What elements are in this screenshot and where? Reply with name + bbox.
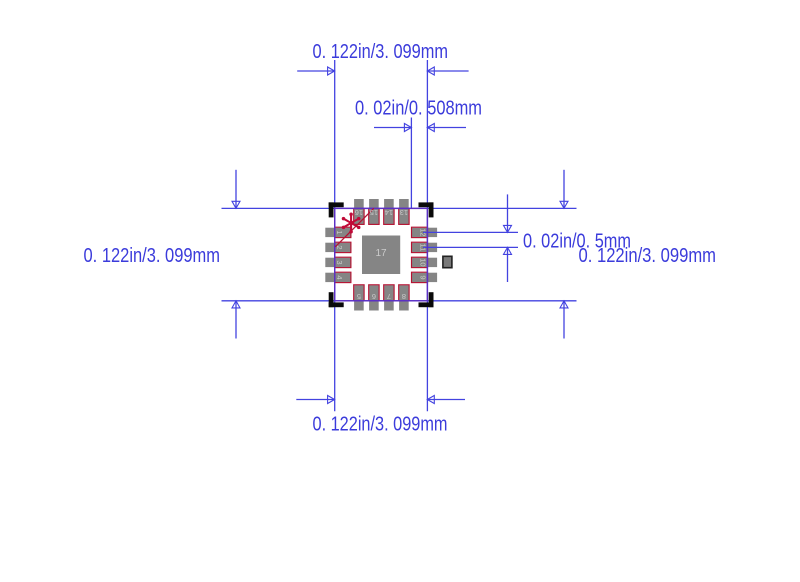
svg-text:8: 8 <box>402 292 406 301</box>
svg-text:4: 4 <box>335 275 344 279</box>
svg-text:17: 17 <box>375 248 387 259</box>
svg-text:15: 15 <box>370 208 378 217</box>
svg-text:0. 122in/3. 099mm: 0. 122in/3. 099mm <box>313 414 448 436</box>
svg-text:0. 122in/3. 099mm: 0. 122in/3. 099mm <box>579 245 717 267</box>
svg-text:2: 2 <box>335 245 344 249</box>
svg-text:14: 14 <box>385 208 393 217</box>
svg-text:11: 11 <box>419 244 428 252</box>
svg-text:0. 02in/0. 508mm: 0. 02in/0. 508mm <box>355 97 482 119</box>
svg-text:3: 3 <box>335 260 344 264</box>
svg-text:0. 122in/3. 099mm: 0. 122in/3. 099mm <box>84 245 221 267</box>
svg-text:6: 6 <box>372 292 376 301</box>
svg-text:7: 7 <box>387 292 391 301</box>
svg-text:16: 16 <box>355 208 363 217</box>
svg-text:0. 122in/3. 099mm: 0. 122in/3. 099mm <box>313 41 449 63</box>
svg-text:5: 5 <box>357 292 361 301</box>
svg-text:1: 1 <box>335 230 344 234</box>
svg-text:9: 9 <box>419 275 428 279</box>
svg-text:12: 12 <box>419 228 428 236</box>
svg-text:13: 13 <box>400 208 408 217</box>
svg-text:10: 10 <box>419 258 428 266</box>
